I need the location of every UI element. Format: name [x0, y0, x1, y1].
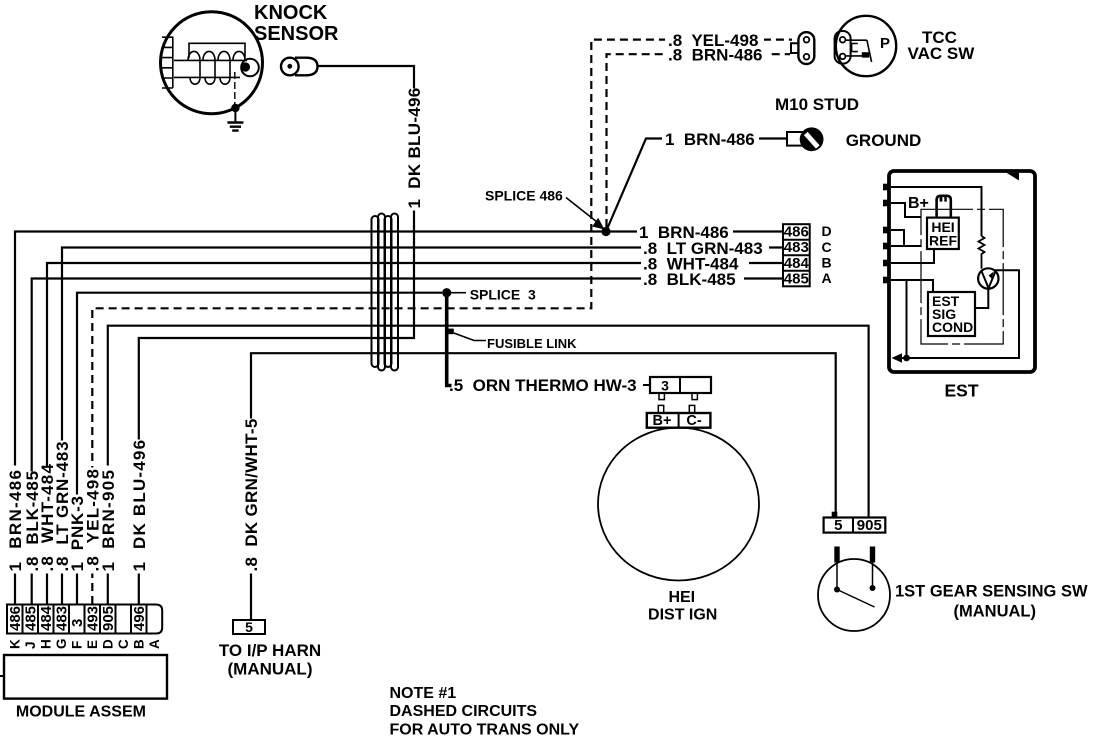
wire .8 WHT-484 row H	[47, 263, 783, 604]
svg-text:A: A	[147, 639, 162, 649]
label 1 DK BLU-496 vertical	[130, 439, 149, 574]
wire 1 BRN-905 row D	[108, 326, 869, 604]
svg-text:B+: B+	[908, 195, 929, 212]
label 1 DK BLU-496 knock wire	[405, 87, 424, 210]
svg-text:B: B	[822, 255, 832, 271]
svg-text:.8 BRN-486: .8 BRN-486	[668, 45, 762, 64]
knock sensor connector	[281, 58, 299, 76]
svg-text:484: 484	[784, 255, 810, 272]
svg-text:GROUND: GROUND	[846, 131, 922, 150]
wire 1 DK BLU-496 row B	[139, 66, 414, 604]
label .8 LT GRN-483 vertical	[53, 441, 72, 574]
fusible link wire (thick)	[445, 293, 452, 386]
svg-text:NOTE #1: NOTE #1	[390, 685, 457, 702]
svg-text:496: 496	[131, 606, 148, 631]
svg-text:SPLICE 3: SPLICE 3	[470, 286, 536, 302]
svg-text:1 DK BLU-496: 1 DK BLU-496	[130, 439, 149, 572]
label 1 BRN-486 ground	[662, 131, 759, 147]
label 1 PNK-3 vertical	[68, 495, 87, 574]
transistor Q1	[978, 268, 998, 288]
label 1 BRN-905 vertical	[99, 466, 118, 574]
svg-text:484: 484	[38, 605, 55, 631]
svg-text:493: 493	[85, 606, 102, 631]
svg-text:MODULE ASSEM: MODULE ASSEM	[16, 704, 146, 721]
svg-text:COND: COND	[932, 319, 973, 335]
svg-text:485: 485	[784, 270, 809, 287]
svg-text:5: 5	[245, 619, 253, 635]
label .8 YEL-498 vertical	[84, 468, 103, 574]
svg-text:KNOCK: KNOCK	[254, 2, 328, 24]
svg-text:H: H	[39, 639, 54, 649]
TO I/P HARN connector 5	[233, 620, 265, 634]
B+ terminal dome	[937, 196, 951, 218]
wire ground diagonal from splice 486	[606, 139, 787, 232]
connector stack 486/483/484/485	[783, 224, 810, 286]
TCC VAC SW body	[836, 16, 896, 76]
svg-text:SENSOR: SENSOR	[254, 23, 339, 45]
wire 1 PNK-3 row F	[77, 293, 442, 604]
svg-text:B: B	[132, 639, 147, 649]
label .8 BRN-486	[665, 47, 768, 62]
svg-text:D: D	[101, 639, 116, 649]
knock sensor comb	[162, 37, 173, 88]
thermo connector	[643, 377, 711, 400]
svg-text:G: G	[54, 638, 69, 649]
TCC switch contacts	[845, 40, 867, 56]
wire .8 DK GRN/WHT-5	[251, 353, 836, 620]
knock sensor ground lead	[234, 72, 236, 106]
svg-text:REF: REF	[929, 233, 957, 249]
svg-text:FUSIBLE LINK: FUSIBLE LINK	[487, 336, 577, 351]
svg-text:D: D	[822, 223, 832, 239]
knock sensor output terminal circle	[241, 59, 259, 77]
svg-text:5: 5	[834, 517, 842, 534]
label .8 WHT-484 vertical	[38, 463, 57, 574]
svg-text:A: A	[822, 270, 832, 286]
knock sensor coil	[174, 60, 247, 77]
EST SIG COND box	[928, 292, 975, 336]
label .8 DK GRN/WHT-5 vertical	[242, 418, 261, 573]
splice 3	[442, 288, 486, 385]
svg-text:3: 3	[661, 377, 669, 393]
svg-text:1ST GEAR SENSING SW: 1ST GEAR SENSING SW	[895, 582, 1088, 600]
EST inner dash-dot boundary	[921, 209, 1003, 344]
splice 486 dot	[601, 227, 610, 236]
svg-text:486: 486	[7, 606, 24, 631]
resistor	[979, 236, 985, 269]
svg-text:F: F	[70, 641, 85, 649]
svg-text:.8 BLK-485: .8 BLK-485	[643, 270, 736, 289]
connector pin letters rotated	[8, 638, 163, 649]
svg-text:C-: C-	[686, 413, 701, 429]
ground stud M10	[787, 127, 823, 151]
svg-text:C: C	[116, 639, 131, 649]
label row .8 BLK-485	[641, 272, 744, 286]
svg-text:485: 485	[23, 606, 40, 631]
HEI REF box	[927, 218, 959, 249]
svg-text:K: K	[8, 639, 23, 649]
module assem connector row	[7, 605, 162, 634]
EST module box	[883, 171, 1035, 372]
TCC VAC SW	[791, 16, 896, 76]
connector 5 905	[824, 512, 886, 533]
knock sensor inner frame	[189, 43, 245, 58]
EST internal wires	[891, 187, 1019, 358]
svg-text:905: 905	[857, 517, 882, 534]
svg-text:E: E	[85, 640, 100, 649]
svg-text:P: P	[880, 35, 890, 52]
splice 486 pointer arrow	[566, 198, 611, 237]
svg-text:SPLICE 486: SPLICE 486	[485, 187, 563, 203]
svg-text:B+: B+	[653, 413, 672, 429]
svg-text:HEI: HEI	[668, 589, 695, 606]
svg-text:1 BRN-905: 1 BRN-905	[99, 469, 118, 572]
wire 1 BRN-486 row K	[15, 232, 783, 605]
label row .8 WHT-484	[641, 256, 749, 270]
wire .8 BLK-485 row J	[32, 279, 783, 605]
1st gear sensing switch	[818, 547, 890, 632]
svg-text:M10 STUD: M10 STUD	[775, 95, 859, 114]
svg-text:EST: EST	[944, 381, 978, 401]
label row .8 LT GRN-483	[641, 241, 769, 255]
svg-text:C: C	[822, 239, 832, 255]
svg-text:VAC SW: VAC SW	[908, 44, 976, 63]
label 1 BRN-486 vertical	[6, 466, 25, 574]
label row 1 BRN-486	[637, 225, 733, 239]
svg-text:TO I/P HARN: TO I/P HARN	[219, 641, 321, 660]
svg-text:483: 483	[784, 239, 809, 256]
svg-text:(MANUAL): (MANUAL)	[228, 659, 313, 678]
svg-text:J: J	[23, 641, 38, 649]
wire loom bundle	[372, 214, 399, 371]
TCC harness connector	[798, 32, 814, 64]
label .8 BLK-485 vertical	[23, 470, 42, 573]
svg-text:DIST IGN: DIST IGN	[648, 606, 717, 623]
rotated wire labels	[6, 87, 424, 573]
EST pins	[883, 184, 890, 284]
svg-text:3: 3	[69, 619, 86, 627]
wire .8 YEL-498 dashed row E	[92, 40, 792, 604]
connector cell numbers rotated	[7, 605, 148, 631]
svg-text:.8 DK GRN/WHT-5: .8 DK GRN/WHT-5	[242, 418, 261, 571]
svg-text:(MANUAL): (MANUAL)	[954, 602, 1036, 620]
knock sensor body circle	[161, 12, 263, 114]
svg-text:1 BRN-486: 1 BRN-486	[665, 130, 755, 149]
HEI dist cap connector B+ C-	[647, 405, 711, 427]
module assem box	[4, 655, 167, 699]
svg-text:905: 905	[100, 606, 117, 631]
wire .8 BRN-486 dashed to splice 486	[607, 54, 791, 227]
svg-text:FOR AUTO TRANS ONLY: FOR AUTO TRANS ONLY	[390, 722, 580, 736]
svg-text:483: 483	[54, 606, 71, 631]
ground symbol	[234, 108, 236, 121]
svg-text:DASHED CIRCUITS: DASHED CIRCUITS	[390, 703, 538, 720]
label .8 YEL-498	[665, 32, 764, 48]
svg-text:486: 486	[784, 224, 809, 241]
wire .8 LT GRN-483 row G	[62, 248, 783, 605]
svg-text:.5 ORN THERMO HW-3: .5 ORN THERMO HW-3	[449, 376, 637, 395]
HEI DIST IGN body	[598, 428, 759, 581]
svg-text:1 DK BLU-496: 1 DK BLU-496	[405, 87, 424, 208]
